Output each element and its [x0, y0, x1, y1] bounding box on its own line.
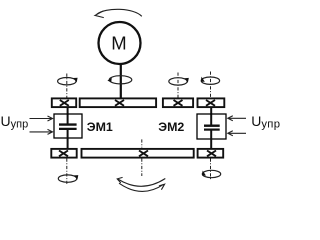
bearing X top-1 [60, 100, 69, 106]
axis line A1 [66, 74, 68, 98]
svg-text:Uупр: Uупр [251, 113, 280, 130]
svg-text:M: M [111, 33, 126, 54]
clutch shaft right lower [210, 130, 212, 149]
axis line A6 [210, 159, 212, 181]
bearing X bottom-3 [207, 151, 216, 157]
bottom shaft bar segment 3 [198, 149, 224, 158]
control arrow right top [228, 116, 246, 121]
svg-text:ЭМ1: ЭМ1 [87, 120, 113, 134]
clutch shaft left upper [67, 108, 69, 125]
clutch plates EM2 [204, 124, 220, 126]
rotation ellipse E2 on motor shaft [109, 76, 132, 84]
top shaft bar segment 2 [80, 98, 156, 107]
svg-text:ЭМ2: ЭМ2 [158, 120, 184, 134]
clutch box EM1 [54, 114, 82, 138]
bearing X bottom-2 [139, 151, 148, 157]
clutch plates EM1 [59, 123, 77, 125]
rotation ellipse E6 [202, 170, 220, 177]
rotation ellipse E3 [169, 78, 187, 85]
rotation ellipse E1 [58, 78, 76, 85]
bearing X top-3 [174, 100, 183, 106]
control arrow right bottom [228, 131, 246, 136]
bottom shaft bar segment 2 [82, 149, 194, 158]
top shaft bar segment 1 [52, 98, 76, 107]
clutch box EM2 [197, 114, 226, 139]
axis line A5 [66, 159, 68, 186]
top shaft bar segment 3 [163, 98, 193, 107]
axis line A4 [210, 72, 212, 98]
rotation ellipse E4 [201, 77, 219, 84]
axis line bottom centre [141, 139, 143, 147]
control arrow left top [30, 116, 53, 121]
axis line A3 [177, 73, 179, 98]
motor shaft [120, 64, 122, 98]
bottom shaft bar segment 1 [51, 149, 76, 158]
clutch shaft right upper [210, 108, 212, 126]
bearing X top-4 [206, 100, 215, 106]
top shaft bar segment 4 [198, 98, 225, 107]
rotation arrow over motor [95, 9, 142, 17]
control arrow left bottom [30, 129, 53, 134]
bearing X bottom-1 [59, 151, 68, 157]
rotation ellipse E5 [58, 175, 76, 182]
oscillation arrow bottom [117, 177, 165, 191]
motor M circle [99, 22, 141, 64]
bearing X top-2 [115, 100, 124, 106]
clutch shaft left lower [67, 130, 69, 150]
svg-text:Uупр: Uупр [1, 113, 29, 130]
